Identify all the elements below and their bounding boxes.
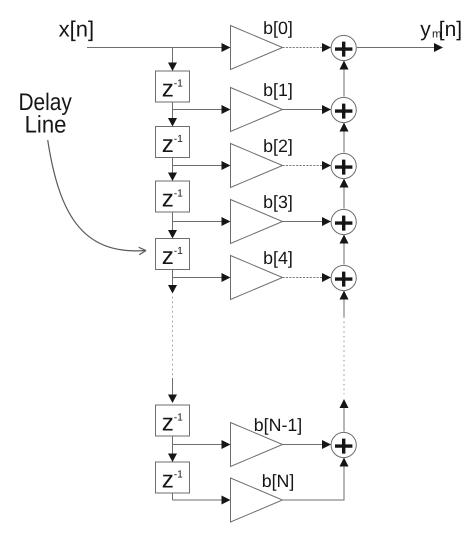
- svg-text:-1: -1: [174, 469, 183, 480]
- svg-text:-1: -1: [174, 134, 183, 145]
- svg-text:-1: -1: [174, 246, 183, 257]
- svg-text:x[n]: x[n]: [59, 17, 94, 42]
- svg-text:b[N-1]: b[N-1]: [254, 415, 302, 435]
- svg-text:b[0]: b[0]: [263, 18, 293, 38]
- svg-text:b[1]: b[1]: [263, 80, 293, 100]
- svg-text:z: z: [162, 466, 174, 493]
- svg-text:-1: -1: [174, 412, 183, 423]
- svg-text:z: z: [162, 131, 174, 158]
- svg-text:z: z: [162, 243, 174, 270]
- svg-text:Line: Line: [25, 111, 67, 138]
- svg-text:y: y: [420, 18, 431, 41]
- svg-text:b[N]: b[N]: [262, 471, 295, 491]
- svg-text:z: z: [162, 409, 174, 436]
- svg-text:-1: -1: [174, 78, 183, 89]
- svg-text:z: z: [162, 75, 174, 102]
- svg-text:b[4]: b[4]: [263, 248, 293, 268]
- svg-text:z: z: [162, 185, 174, 212]
- svg-text:-1: -1: [174, 188, 183, 199]
- svg-text:b[3]: b[3]: [263, 192, 293, 212]
- svg-text:[n]: [n]: [439, 18, 462, 41]
- svg-text:b[2]: b[2]: [263, 136, 293, 156]
